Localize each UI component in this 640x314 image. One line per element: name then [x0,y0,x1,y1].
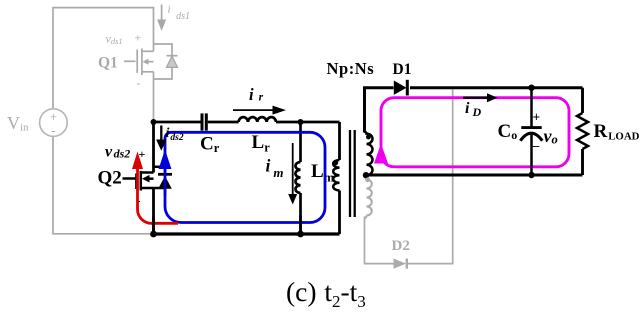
current arrow i_m [292,143,294,196]
Q1 body arrow [143,59,149,65]
inductor Lm branch [299,122,302,162]
transistor Q2 [123,171,166,191]
node C_o top [528,85,534,91]
current arrow i_ds1 [161,5,163,22]
magenta current arrowhead [374,144,388,164]
svg-text:Q2: Q2 [98,168,122,189]
inductor Lr coil [239,117,276,122]
svg-text:D2: D2 [392,238,410,254]
transformer secondary upper winding (active) [365,132,373,176]
svg-text:(c)t2-t3: (c)t2-t3 [286,276,366,311]
gray polarity dot [365,177,370,182]
wire: secondary top lead [365,88,394,133]
C_o curved plate [520,133,542,141]
svg-text:-: - [137,76,141,90]
wire: Q2 source line [152,188,155,234]
wire: right edge of primary loop / transformer primary lead [338,122,341,160]
Q1 body diode [167,55,178,57]
primary polarity dot [333,160,338,165]
diode: Q2 body diode branch [154,167,166,173]
transformer primary winding [333,160,339,190]
wire: Q2 drain line [152,122,155,173]
wire: magenta output current loop [381,98,569,167]
transformer core [349,130,351,217]
capacitor Cr plates [201,113,204,130]
current arrow i_D (on magenta loop) [463,97,489,99]
wire: bottom of primary loop [154,232,340,235]
source V_in [40,109,68,137]
svg-text:D1: D1 [393,61,412,78]
current arrow i_ds2 (black) [160,126,162,142]
red current arrowhead [132,152,143,170]
diode D1 [394,81,407,95]
Q2 body arrow [142,175,150,183]
diode D2 (gray) [394,259,407,269]
wire: red clamp current path [138,167,179,223]
current arrow i_r [233,109,274,111]
svg-text:+: + [135,31,142,45]
wire: right edge with load, bottom rail [581,88,584,113]
wire: D2 branch (inactive, gray) [365,217,394,264]
svg-text:Q1: Q1 [98,54,118,71]
svg-text:-: - [51,123,55,138]
node Lr-Lm junction [298,119,304,125]
node bottom Q2 [150,231,157,238]
blue current arrowhead [159,150,172,170]
wire: secondary top rail [410,86,583,89]
C_o top plate [521,126,541,129]
svg-text:+: + [533,109,541,124]
secondary polarity dot [366,135,371,140]
wire: black primary loop top [154,121,201,124]
transistor Q1 (inactive, gray) [124,44,172,79]
wire: Lm line overdraw at blue crossing [299,215,302,234]
wire: Q2 source line overdraw at red/blue crossing [152,216,155,234]
wire: gray input loop (top + left + bottom) [53,8,154,234]
node top-left (gray meets black) [151,119,157,125]
node C_o bottom [528,172,534,178]
wire: blue resonant current loop [165,132,325,222]
node bottom Lm [297,231,304,238]
transformer secondary lower winding (inactive, gray) [365,180,372,219]
node center tap [363,172,369,178]
svg-text:Np:Ns: Np:Ns [327,59,375,78]
svg-text:–: – [532,138,540,153]
svg-text:vds2: vds2 [105,144,130,161]
capacitor C_o branch [530,88,533,127]
resistor R_LOAD zigzag [577,113,588,149]
